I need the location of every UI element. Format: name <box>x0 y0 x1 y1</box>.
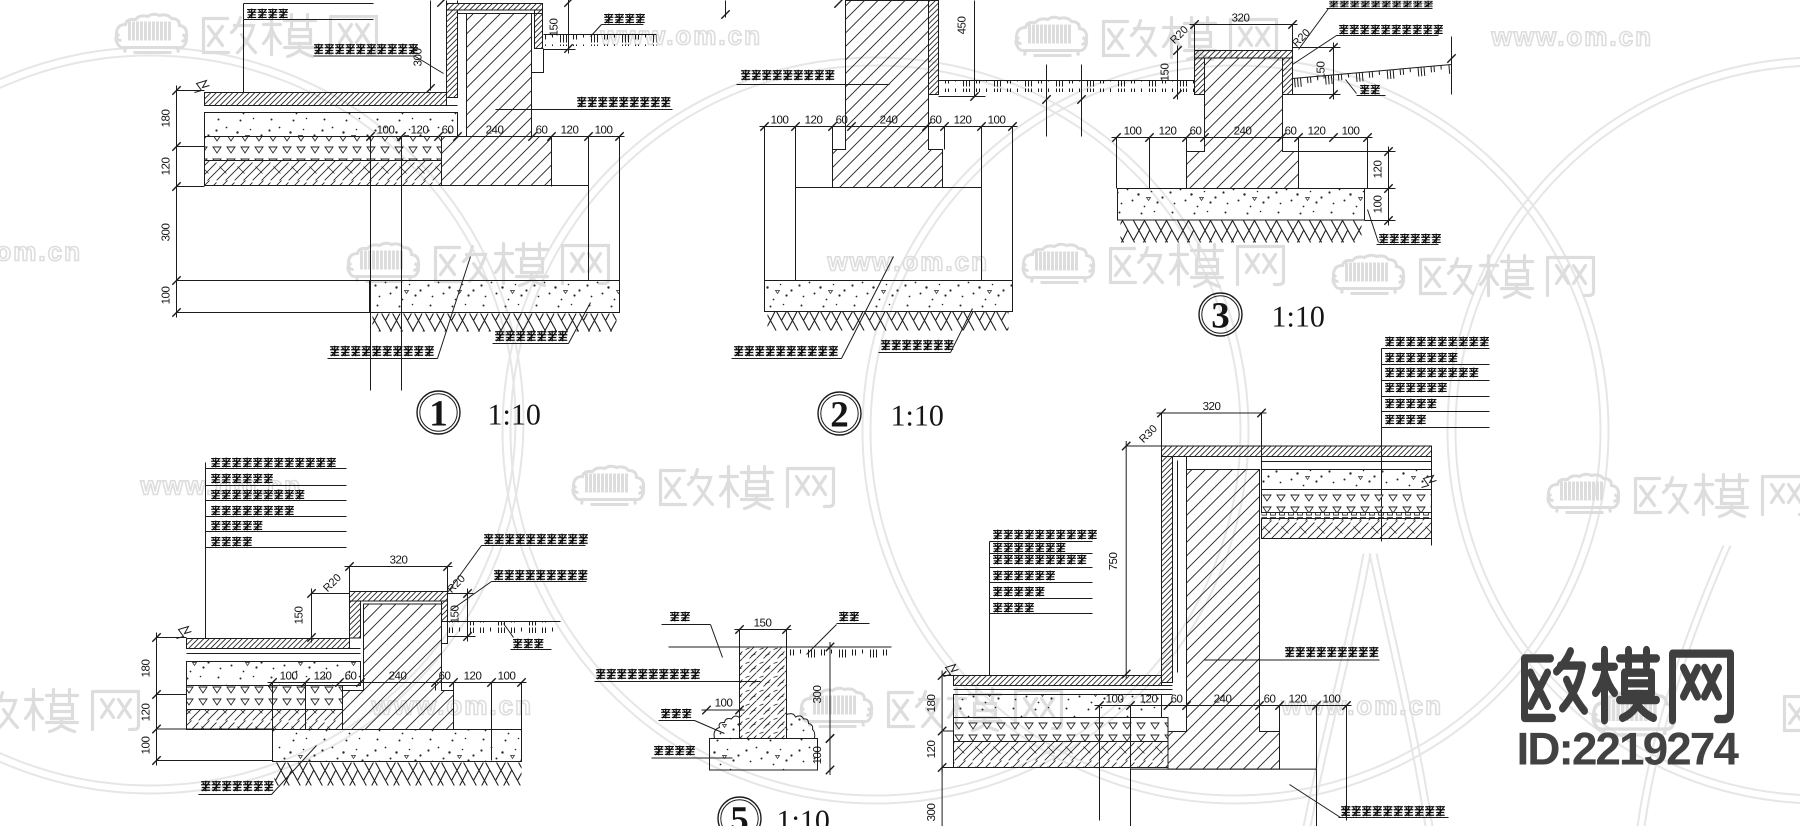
d4 pavement layers <box>187 638 350 640</box>
svg-text:120: 120 <box>1373 161 1385 179</box>
d1 label 种植土 <box>604 14 645 24</box>
d5 C20 concrete mounds <box>714 716 739 738</box>
svg-text:320: 320 <box>1203 401 1221 413</box>
d4 left dim chain <box>156 633 158 766</box>
svg-text:60: 60 <box>930 115 942 127</box>
d5 title circle 5 1:10 (clipped) <box>718 797 761 826</box>
d4 label 20厚浅褐色花岗岩火烧板 <box>484 534 588 545</box>
d2 right facing <box>929 1 939 95</box>
svg-text:100: 100 <box>812 747 824 765</box>
d4 cap <box>350 592 448 602</box>
d4 dim 150 right <box>467 589 469 642</box>
svg-text:60: 60 <box>439 671 451 683</box>
d6 left dim chain 180/120/300 <box>941 671 943 773</box>
svg-text:320: 320 <box>390 555 408 567</box>
d4 core + footing <box>343 604 454 730</box>
svg-text:www.om.cn: www.om.cn <box>827 247 990 277</box>
svg-text:450: 450 <box>957 17 969 35</box>
d4 label 20厚1:2水泥砂浆粘结 <box>494 570 587 581</box>
svg-text:www.om.cn: www.om.cn <box>0 237 82 267</box>
svg-text:100: 100 <box>988 115 1006 127</box>
svg-text:180: 180 <box>926 695 938 713</box>
d6 upper pavement layers <box>1262 461 1432 463</box>
svg-text:1:10: 1:10 <box>488 399 541 432</box>
d1 right facing <box>535 10 543 49</box>
svg-text:120: 120 <box>1289 694 1307 706</box>
d3 dim 150 left <box>1177 46 1179 100</box>
d2 label MU20块石M5水泥砂浆砌筑 <box>734 346 838 357</box>
d5 granite curb 150x300 <box>740 647 787 739</box>
svg-text:60: 60 <box>536 125 548 137</box>
svg-text:100: 100 <box>1342 126 1360 138</box>
svg-text:180: 180 <box>161 110 173 128</box>
d3 label 20厚1:2水泥砂浆粘结 <box>1339 25 1443 35</box>
d3 horiz dim chain <box>1112 137 1373 139</box>
d1 wall cap <box>447 4 543 11</box>
d1 left dim chain 180/120/300/100 <box>176 86 178 318</box>
d6 cap band / upper paving surface <box>1162 446 1432 457</box>
svg-text:300: 300 <box>812 686 824 704</box>
svg-text:300: 300 <box>161 224 173 242</box>
d4 left facing <box>350 601 361 638</box>
d6 lower pavement layers <box>954 675 1162 677</box>
d3 cap <box>1195 51 1293 59</box>
d1 C15 concrete bedding <box>370 281 620 313</box>
svg-text:120: 120 <box>1140 694 1158 706</box>
svg-text:240: 240 <box>389 671 407 683</box>
svg-text:60: 60 <box>442 125 454 137</box>
svg-text:120: 120 <box>1159 126 1177 138</box>
d1 horiz dim chain 100/120/60/240/60/120/100 <box>366 136 625 138</box>
d2 grass line right (shared with d3) <box>939 80 1194 82</box>
d1 wall core + footing (MU10 brick) <box>442 14 552 186</box>
svg-text:ID:2219274: ID:2219274 <box>1517 723 1740 775</box>
d1 mortar gap <box>457 10 459 98</box>
svg-text:120: 120 <box>411 125 429 137</box>
svg-text:300: 300 <box>413 49 425 67</box>
d4 dim 320 <box>345 566 453 568</box>
d3 dim 320 <box>1190 24 1298 26</box>
svg-text:100: 100 <box>280 671 298 683</box>
d4 ground hatch <box>275 763 522 786</box>
watermark: giant glyph strokes right side <box>1304 554 1364 826</box>
d3 right vdim 120/100 <box>1388 147 1390 226</box>
d5 grass right <box>787 646 892 648</box>
svg-text:180: 180 <box>141 660 153 678</box>
d2 title circle 2 1:10 <box>818 392 861 435</box>
d5 left paving line <box>669 646 740 648</box>
svg-text:1:10: 1:10 <box>1272 301 1325 334</box>
watermark: big circles <box>0 56 516 786</box>
d1 label C15混凝土垫层 <box>495 331 567 342</box>
d2 top-left dim remnant <box>725 1 727 18</box>
svg-text:120: 120 <box>1308 126 1326 138</box>
svg-text:1:10: 1:10 <box>891 400 944 433</box>
d5 label C20砼 <box>661 709 691 719</box>
svg-text:120: 120 <box>464 671 482 683</box>
d3 left grass <box>1055 80 1195 82</box>
svg-text:120: 120 <box>561 125 579 137</box>
svg-text:240: 240 <box>880 115 898 127</box>
d1 dim 150 right <box>568 0 570 54</box>
d1 right facing below soil <box>532 49 544 73</box>
svg-text:3: 3 <box>1211 296 1230 337</box>
d2 horiz dim chain <box>760 126 1018 128</box>
svg-text:120: 120 <box>954 115 972 127</box>
watermark logos (sofa + outline glyphs) <box>116 14 187 52</box>
d1 pavement layers left <box>205 92 447 94</box>
d2 dim 450 <box>974 1 976 97</box>
d6 label MU10砖M5水泥砂浆砌筑 <box>1285 647 1378 658</box>
svg-text:60: 60 <box>1190 126 1202 138</box>
d5 dim 100 right <box>829 734 831 776</box>
d6 core + footing <box>1168 470 1280 770</box>
svg-text:120: 120 <box>141 704 153 722</box>
svg-text:100: 100 <box>498 671 516 683</box>
svg-text:60: 60 <box>1264 694 1276 706</box>
svg-text:1:10: 1:10 <box>777 805 830 826</box>
d3 facings <box>1195 58 1205 95</box>
d4 horiz dim chain <box>268 682 527 684</box>
svg-text:60: 60 <box>1171 694 1183 706</box>
d2 label C15混凝土垫层 <box>881 340 953 351</box>
d3 ground hatch <box>1121 221 1362 243</box>
d4 C15 bedding <box>273 730 522 762</box>
d3 title circle 3 1:10 <box>1199 293 1242 336</box>
svg-text:150: 150 <box>754 618 772 630</box>
d4 dim 150 left <box>311 589 313 643</box>
d3 sloped green line right <box>1293 65 1452 79</box>
d3 C15 bedding <box>1118 189 1365 221</box>
svg-text:240: 240 <box>486 125 504 137</box>
d4 label stack (6 rows) <box>211 458 336 468</box>
d1 title circle 1 1:10 <box>417 391 460 434</box>
svg-text:60: 60 <box>1285 126 1297 138</box>
d6 foundation MU20 (cut at bottom) <box>1131 769 1317 826</box>
svg-text:100: 100 <box>161 287 173 305</box>
d6 horiz dim chain <box>1095 705 1352 707</box>
d6 dim 750 <box>1125 441 1127 679</box>
svg-text:1: 1 <box>429 394 448 435</box>
svg-text:2: 2 <box>830 395 849 436</box>
d3 label C15混凝土垫层 <box>1379 234 1441 244</box>
d6 lower label stack <box>993 530 1097 540</box>
svg-text:100: 100 <box>1323 694 1341 706</box>
d6 dim 320 <box>1157 412 1267 414</box>
d4 label C15混凝土垫层 <box>201 781 273 792</box>
svg-text:60: 60 <box>345 671 357 683</box>
svg-text:300: 300 <box>926 804 938 822</box>
svg-text:240: 240 <box>1214 694 1232 706</box>
d1 dim 300 (vertical, cut) <box>430 1 432 91</box>
d1 label MU10砖M5水泥砂浆砌筑 <box>577 97 670 108</box>
d2/d3 elevation marks <box>1046 65 1048 137</box>
svg-text:100: 100 <box>595 125 613 137</box>
d5 label 150*300*600花岗岩条石 <box>596 669 700 680</box>
d1 foundation MU20 block stone <box>402 186 589 281</box>
d1 left facing <box>447 10 458 98</box>
d2 wall core + footing <box>833 1 943 188</box>
svg-text:120: 120 <box>314 671 332 683</box>
d1 label 20厚1:2水泥砂浆粘结 <box>314 44 418 55</box>
d2 foundation MU20 <box>796 188 982 281</box>
d4 label 种植土 <box>513 639 543 649</box>
svg-text:60: 60 <box>836 115 848 127</box>
d5 label 铺装 <box>670 612 690 622</box>
d2 C15 bedding <box>765 281 1013 312</box>
d6 upper label stack <box>1385 337 1489 347</box>
svg-text:100: 100 <box>715 698 733 710</box>
d3 core + footing <box>1187 58 1299 189</box>
d1 label MU20块石M5水泥砂浆砌筑 <box>330 346 434 357</box>
svg-text:100: 100 <box>1373 196 1385 214</box>
big dark logo 欧模网 <box>1593 691 1674 735</box>
d3 label 20厚浅褐色花岗岩火烧板 (top) <box>1329 1 1433 8</box>
d5 dim 300 right <box>829 642 831 744</box>
svg-text:120: 120 <box>926 741 938 759</box>
svg-text:120: 120 <box>161 158 173 176</box>
d2 label MU10砖M5水泥砂浆砌筑 <box>741 70 834 81</box>
d1 top cut edge <box>446 1 448 4</box>
svg-text:100: 100 <box>1124 126 1142 138</box>
d3 label 绿地 <box>1360 85 1380 95</box>
svg-text:150: 150 <box>549 19 561 37</box>
svg-text:120: 120 <box>805 115 823 127</box>
d1 label stack (cut at top) <box>244 3 374 5</box>
d5 dim 150 <box>735 629 792 631</box>
d4 soil line right <box>448 621 561 623</box>
d3 dim 150 right <box>1333 43 1335 100</box>
d2 ground hatch <box>768 312 1009 331</box>
d4 right facing <box>442 601 448 622</box>
d5 label C15垫层 <box>654 746 695 756</box>
svg-text:www.om.cn: www.om.cn <box>1491 22 1654 52</box>
svg-text:320: 320 <box>1232 13 1250 25</box>
d1 planting soil line right <box>544 34 657 36</box>
svg-text:100: 100 <box>771 115 789 127</box>
svg-text:5: 5 <box>730 800 749 826</box>
svg-text:750: 750 <box>1108 553 1120 571</box>
d6 left facing <box>1162 457 1173 683</box>
svg-text:240: 240 <box>1234 126 1252 138</box>
svg-text:150: 150 <box>450 606 462 624</box>
watermark www.om.cn texts <box>600 21 763 51</box>
d5 dim 100 <box>702 709 745 711</box>
svg-text:100: 100 <box>1106 694 1124 706</box>
d5 C15 bedding <box>710 739 818 771</box>
d1 ground hatch <box>373 314 617 332</box>
svg-text:100: 100 <box>377 125 395 137</box>
svg-text:150: 150 <box>1160 64 1172 82</box>
svg-text:150: 150 <box>294 607 306 625</box>
svg-text:100: 100 <box>141 737 153 755</box>
d5 label 绿地 <box>839 612 859 622</box>
d6 label MU20块石M5水泥砂浆砌筑 <box>1341 806 1445 817</box>
